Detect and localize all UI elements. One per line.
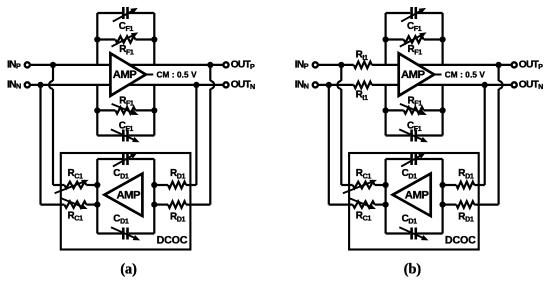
node OUT_N junction (482, 82, 488, 88)
wire upper R_D1 line (443, 184, 457, 186)
svg-text:IN: IN (295, 59, 304, 70)
resistor R_F1 top (variable) (404, 36, 424, 43)
svg-text:F1: F1 (414, 25, 422, 33)
svg-text:IN: IN (7, 79, 16, 90)
wire top feedback left vertical (96, 13, 98, 65)
svg-text:N: N (250, 82, 255, 91)
svg-text:OUT: OUT (519, 60, 540, 71)
svg-text:P: P (16, 62, 21, 71)
wire bottom feedback right vertical (442, 85, 444, 136)
wire INn-OUTn line (30, 84, 224, 86)
resistor R_D1 lower (168, 201, 186, 208)
op-amp AMP (DCOC) (104, 174, 142, 216)
svg-text:(b): (b) (404, 262, 422, 278)
wire top feedback top line (386, 12, 411, 14)
node IN_N junction (326, 82, 332, 88)
svg-text:F1: F1 (126, 100, 134, 108)
wire bottom feedback left vertical (385, 85, 387, 136)
node top R_F1 line left junction (94, 36, 100, 42)
capacitor C_F1 bottom (variable) (122, 130, 125, 142)
node bottom R_F1 line left junction (94, 107, 100, 113)
node DCOC upper-left (383, 182, 389, 188)
wire top feedback top line (97, 12, 122, 14)
wire top feedback right vertical (442, 13, 444, 65)
svg-text:I1: I1 (362, 54, 368, 62)
wire bottom feedback right vertical (153, 85, 155, 136)
capacitor C_F1 top (variable) (410, 7, 413, 19)
resistor R_F1 top (variable) (115, 36, 135, 43)
node IN_N junction (37, 82, 43, 88)
terminal OUT_N (512, 82, 517, 87)
resistor RI1 lower (354, 82, 372, 89)
svg-text:P: P (304, 62, 309, 71)
capacitor C_D1 bottom (variable) (122, 228, 125, 240)
node DCOC lower-left (383, 202, 389, 208)
wire DCOC inner left vertical (385, 159, 387, 234)
svg-text:DCOC: DCOC (445, 235, 476, 247)
wire upper R_C1 line (53, 184, 64, 186)
terminal OUT_P (223, 62, 228, 67)
svg-text:I1: I1 (362, 94, 368, 102)
capacitor C_D1 top (variable) (410, 153, 413, 165)
op-amp AMP (main) (399, 53, 434, 96)
wire DCOC top line (97, 158, 122, 160)
wire OUTn segment (372, 84, 512, 86)
svg-text:F1: F1 (126, 125, 134, 133)
wire IN_P sense down with hop (52, 65, 54, 81)
wire OUT_N sense down (195, 85, 197, 185)
svg-text:D1: D1 (408, 173, 417, 181)
svg-text:D1: D1 (465, 173, 474, 181)
svg-text:N: N (16, 82, 21, 91)
wire OUTp segment (372, 64, 512, 66)
wire top feedback right vertical (153, 13, 155, 65)
node bottom R_F1 line right junction (440, 107, 446, 113)
svg-text:CM : 0.5 V: CM : 0.5 V (157, 71, 198, 80)
node OUT_N junction (193, 82, 199, 88)
wire DCOC bottom line (97, 232, 122, 234)
wire AMP output stub (434, 74, 441, 76)
svg-text:N: N (538, 82, 543, 91)
wire bottom feedback bottom line (386, 134, 411, 136)
svg-text:D1: D1 (120, 218, 129, 226)
node IN_P junction (50, 62, 56, 68)
capacitor C_D1 top (variable) (122, 153, 125, 165)
svg-text:P: P (250, 62, 255, 71)
terminal OUT_N (223, 82, 228, 87)
wire top feedback middle line (386, 38, 404, 40)
wire DCOC top line (386, 158, 411, 160)
svg-text:AMP: AMP (113, 69, 138, 81)
resistor R_F1 bottom (variable) (115, 107, 135, 114)
capacitor C_D1 bottom (variable) (410, 228, 413, 240)
resistor R_C1 lower (variable) (64, 201, 86, 208)
svg-text:F1: F1 (414, 125, 422, 133)
svg-text:D1: D1 (177, 216, 186, 224)
svg-text:F1: F1 (126, 48, 134, 56)
node DCOC upper-right (440, 182, 446, 188)
node DCOC lower-right (151, 202, 157, 208)
wire AMP output stub (146, 74, 153, 76)
terminal IN_P (25, 62, 30, 67)
svg-text:P: P (538, 62, 543, 71)
resistor R_D1 upper (456, 182, 474, 189)
capacitor C_F1 bottom (variable) (410, 130, 413, 142)
resistor R_C1 lower (variable) (353, 201, 375, 208)
node bottom R_F1 line right junction (151, 107, 157, 113)
wire bottom feedback middle line (386, 109, 404, 111)
node DCOC lower-left (94, 202, 100, 208)
DCOC box (61, 153, 191, 250)
wire lower R_C1 line (329, 204, 353, 206)
wire bottom feedback left vertical (96, 85, 98, 136)
resistor R_F1 bottom (variable) (404, 107, 424, 114)
wire IN_P sense down with hop (340, 65, 342, 81)
node OUT_P junction (207, 62, 213, 68)
node top R_F1 line left junction (383, 36, 389, 42)
node IN_P junction (338, 62, 344, 68)
svg-text:N: N (304, 82, 309, 91)
wire top feedback middle line (97, 38, 115, 40)
node DCOC upper-left (94, 182, 100, 188)
resistor R_D1 lower (456, 201, 474, 208)
svg-text:AMP: AMP (405, 190, 430, 202)
svg-text:IN: IN (7, 59, 16, 70)
wire IN_N sense down (328, 85, 330, 205)
wire DCOC inner left vertical (96, 159, 98, 234)
capacitor C_F1 top (variable) (122, 7, 125, 19)
terminal IN_N (313, 82, 318, 87)
svg-text:D1: D1 (120, 173, 129, 181)
wire INp-OUTp line (30, 64, 224, 66)
svg-text:OUT: OUT (231, 60, 252, 71)
node OUT_P junction (496, 62, 502, 68)
svg-text:C1: C1 (74, 215, 83, 223)
terminal OUT_P (512, 62, 517, 67)
wire INn segment (318, 84, 354, 86)
wire OUT_P sense down with hop (498, 65, 500, 81)
svg-text:DCOC: DCOC (157, 235, 188, 247)
node bottom R_F1 line left junction (383, 107, 389, 113)
op-amp AMP (main) (110, 53, 145, 96)
node top R_F1 line right junction (440, 36, 446, 42)
svg-text:AMP: AMP (401, 69, 426, 81)
svg-text:OUT: OUT (231, 80, 252, 91)
wire OUT_N sense down (484, 85, 486, 185)
wire upper R_C1 line (341, 184, 352, 186)
svg-text:C1: C1 (363, 215, 372, 223)
DCOC box (349, 153, 479, 250)
resistor RI1 upper (354, 62, 372, 69)
wire bottom feedback bottom line (97, 134, 122, 136)
wire top feedback left vertical (385, 13, 387, 65)
node top R_F1 line right junction (151, 36, 157, 42)
svg-text:D1: D1 (408, 218, 417, 226)
svg-text:CM : 0.5 V: CM : 0.5 V (445, 71, 486, 80)
resistor R_C1 upper (variable) (64, 182, 86, 189)
wire DCOC inner right vertical (442, 159, 444, 234)
svg-text:C1: C1 (363, 173, 372, 181)
resistor R_D1 upper (168, 182, 186, 189)
svg-text:D1: D1 (465, 216, 474, 224)
node DCOC upper-right (151, 182, 157, 188)
wire lower R_D1 line (443, 204, 457, 206)
wire upper R_D1 line (154, 184, 168, 186)
svg-text:C1: C1 (74, 173, 83, 181)
svg-text:F1: F1 (414, 48, 422, 56)
svg-text:IN: IN (295, 79, 304, 90)
svg-text:OUT: OUT (519, 80, 540, 91)
terminal IN_P (313, 62, 318, 67)
node DCOC lower-right (440, 202, 446, 208)
wire DCOC inner right vertical (153, 159, 155, 234)
wire lower R_C1 line (41, 204, 65, 206)
terminal IN_N (25, 82, 30, 87)
svg-text:D1: D1 (177, 173, 186, 181)
svg-text:AMP: AMP (116, 190, 141, 202)
wire INp segment (318, 64, 354, 66)
svg-text:F1: F1 (414, 100, 422, 108)
wire DCOC bottom line (386, 232, 411, 234)
svg-text:(a): (a) (120, 262, 137, 278)
circuit (b) (295, 7, 543, 278)
resistor R_C1 upper (variable) (353, 182, 375, 189)
wire OUT_P sense down with hop (209, 65, 211, 81)
wire lower R_D1 line (154, 204, 168, 206)
wire IN_N sense down (39, 85, 41, 205)
wire bottom feedback middle line (97, 109, 115, 111)
svg-text:F1: F1 (126, 25, 134, 33)
op-amp AMP (DCOC) (393, 174, 431, 216)
circuit (a) (7, 7, 255, 278)
